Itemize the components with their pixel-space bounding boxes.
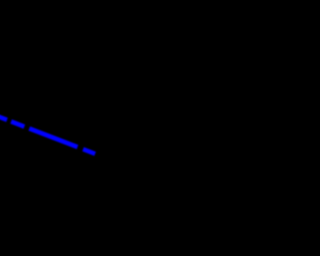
wire dash segment 1 bbox=[0, 114, 7, 120]
wire dash segment 3 bbox=[29, 129, 77, 148]
wire dash segment 2 bbox=[11, 122, 24, 127]
wire dash segment 4 bbox=[83, 149, 95, 154]
